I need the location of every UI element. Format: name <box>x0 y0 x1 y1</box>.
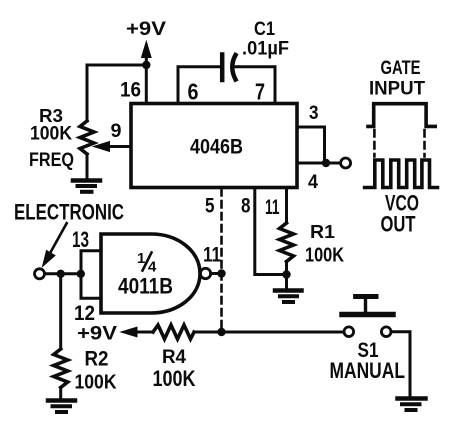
node A junction dot (pin16 / +9V / R3) <box>142 61 150 69</box>
ground (below R2) <box>48 401 75 413</box>
input terminal circle (electronic) <box>35 269 45 279</box>
wire pin 7 <box>236 67 276 104</box>
node junction dot (R2 tap) <box>57 270 65 278</box>
resistor R2 <box>54 349 68 399</box>
wire joining pins 13 and 12 (input tie box) <box>81 251 101 298</box>
resistor R1 <box>280 223 294 275</box>
svg-text:6: 6 <box>188 79 199 105</box>
svg-text:100K: 100K <box>75 372 117 394</box>
wire R4 to S1 <box>194 331 344 334</box>
ground (below S1) <box>398 399 426 411</box>
resistor R4 <box>153 325 194 339</box>
gate input waveform <box>368 104 435 127</box>
node junction dot (bottom rail / dashed net) <box>217 328 225 336</box>
svg-text:4046B: 4046B <box>190 135 243 159</box>
node junction dot (pins 3-4) <box>322 159 330 167</box>
svg-text:11: 11 <box>203 243 221 267</box>
svg-text:7: 7 <box>255 79 265 105</box>
wire terminal to gate input box <box>45 272 82 275</box>
NAND gate U2 4011B <box>101 234 200 313</box>
dashed timing line left <box>373 130 376 157</box>
svg-text:C1: C1 <box>254 18 275 40</box>
svg-text:OUT: OUT <box>381 212 416 237</box>
svg-text:9: 9 <box>111 120 122 142</box>
+9V arrow (top) <box>142 42 152 66</box>
node junction dot (gate output) <box>217 269 225 277</box>
svg-text:13: 13 <box>72 227 89 252</box>
svg-text:R1: R1 <box>310 222 335 242</box>
svg-text:+9V: +9V <box>126 18 166 40</box>
wire S1 to ground <box>391 332 410 397</box>
svg-text:8: 8 <box>241 194 251 218</box>
label 1/4 <box>137 250 157 276</box>
wire pin 6 <box>178 67 220 104</box>
ground (below R3) <box>73 181 100 192</box>
dashed wire pin 5 to gate output to bottom rail <box>220 189 223 331</box>
output terminal circle (VCO out) <box>341 158 351 168</box>
svg-text:11: 11 <box>265 195 280 219</box>
svg-text:12: 12 <box>74 302 95 325</box>
+9V arrow (bottom rail) <box>121 327 153 337</box>
svg-text:4011B: 4011B <box>118 274 173 299</box>
svg-text:.01µF: .01µF <box>242 39 289 60</box>
svg-text:4: 4 <box>308 171 318 193</box>
potentiometer R3 <box>80 65 94 178</box>
svg-text:100K: 100K <box>30 124 72 145</box>
svg-text:+9V: +9V <box>77 324 117 345</box>
IC U1 4046B body <box>131 104 297 188</box>
svg-text:R4: R4 <box>162 346 186 368</box>
node junction dot (gate input) <box>77 270 85 278</box>
svg-text:ELECTRONIC: ELECTRONIC <box>14 200 124 225</box>
wire R2 branch <box>59 274 62 349</box>
pushbutton S1 <box>342 297 393 337</box>
pointer arrow (electronic input) <box>43 223 67 266</box>
svg-text:3: 3 <box>309 102 319 124</box>
svg-text:FREQ: FREQ <box>29 150 74 171</box>
wire pin 16 <box>145 65 148 104</box>
wiper arrow wire pin 9 <box>94 142 132 152</box>
svg-text:INPUT: INPUT <box>369 78 425 100</box>
ground (below R1) <box>275 275 302 303</box>
svg-text:GATE: GATE <box>381 57 421 79</box>
wire pin 8 <box>255 188 287 275</box>
svg-text:100K: 100K <box>305 245 344 267</box>
wire pin 3 <box>297 127 325 163</box>
node junction dot (R1 / pin 8) <box>282 270 290 278</box>
wire +9V junction to R3 top <box>87 64 146 67</box>
wire gate output <box>211 272 222 275</box>
svg-text:16: 16 <box>120 78 141 102</box>
wire pin 11 of U1 <box>285 188 288 224</box>
svg-text:R2: R2 <box>85 347 109 371</box>
inversion bubble (pin 11 out) <box>200 268 210 278</box>
capacitor C1 <box>222 55 235 81</box>
svg-text:5: 5 <box>205 194 215 218</box>
dashed timing line right <box>423 130 426 157</box>
svg-text:100K: 100K <box>153 366 196 391</box>
vco out waveform <box>365 160 438 188</box>
wire pin 4 <box>297 162 341 165</box>
svg-text:MANUAL: MANUAL <box>330 358 406 383</box>
